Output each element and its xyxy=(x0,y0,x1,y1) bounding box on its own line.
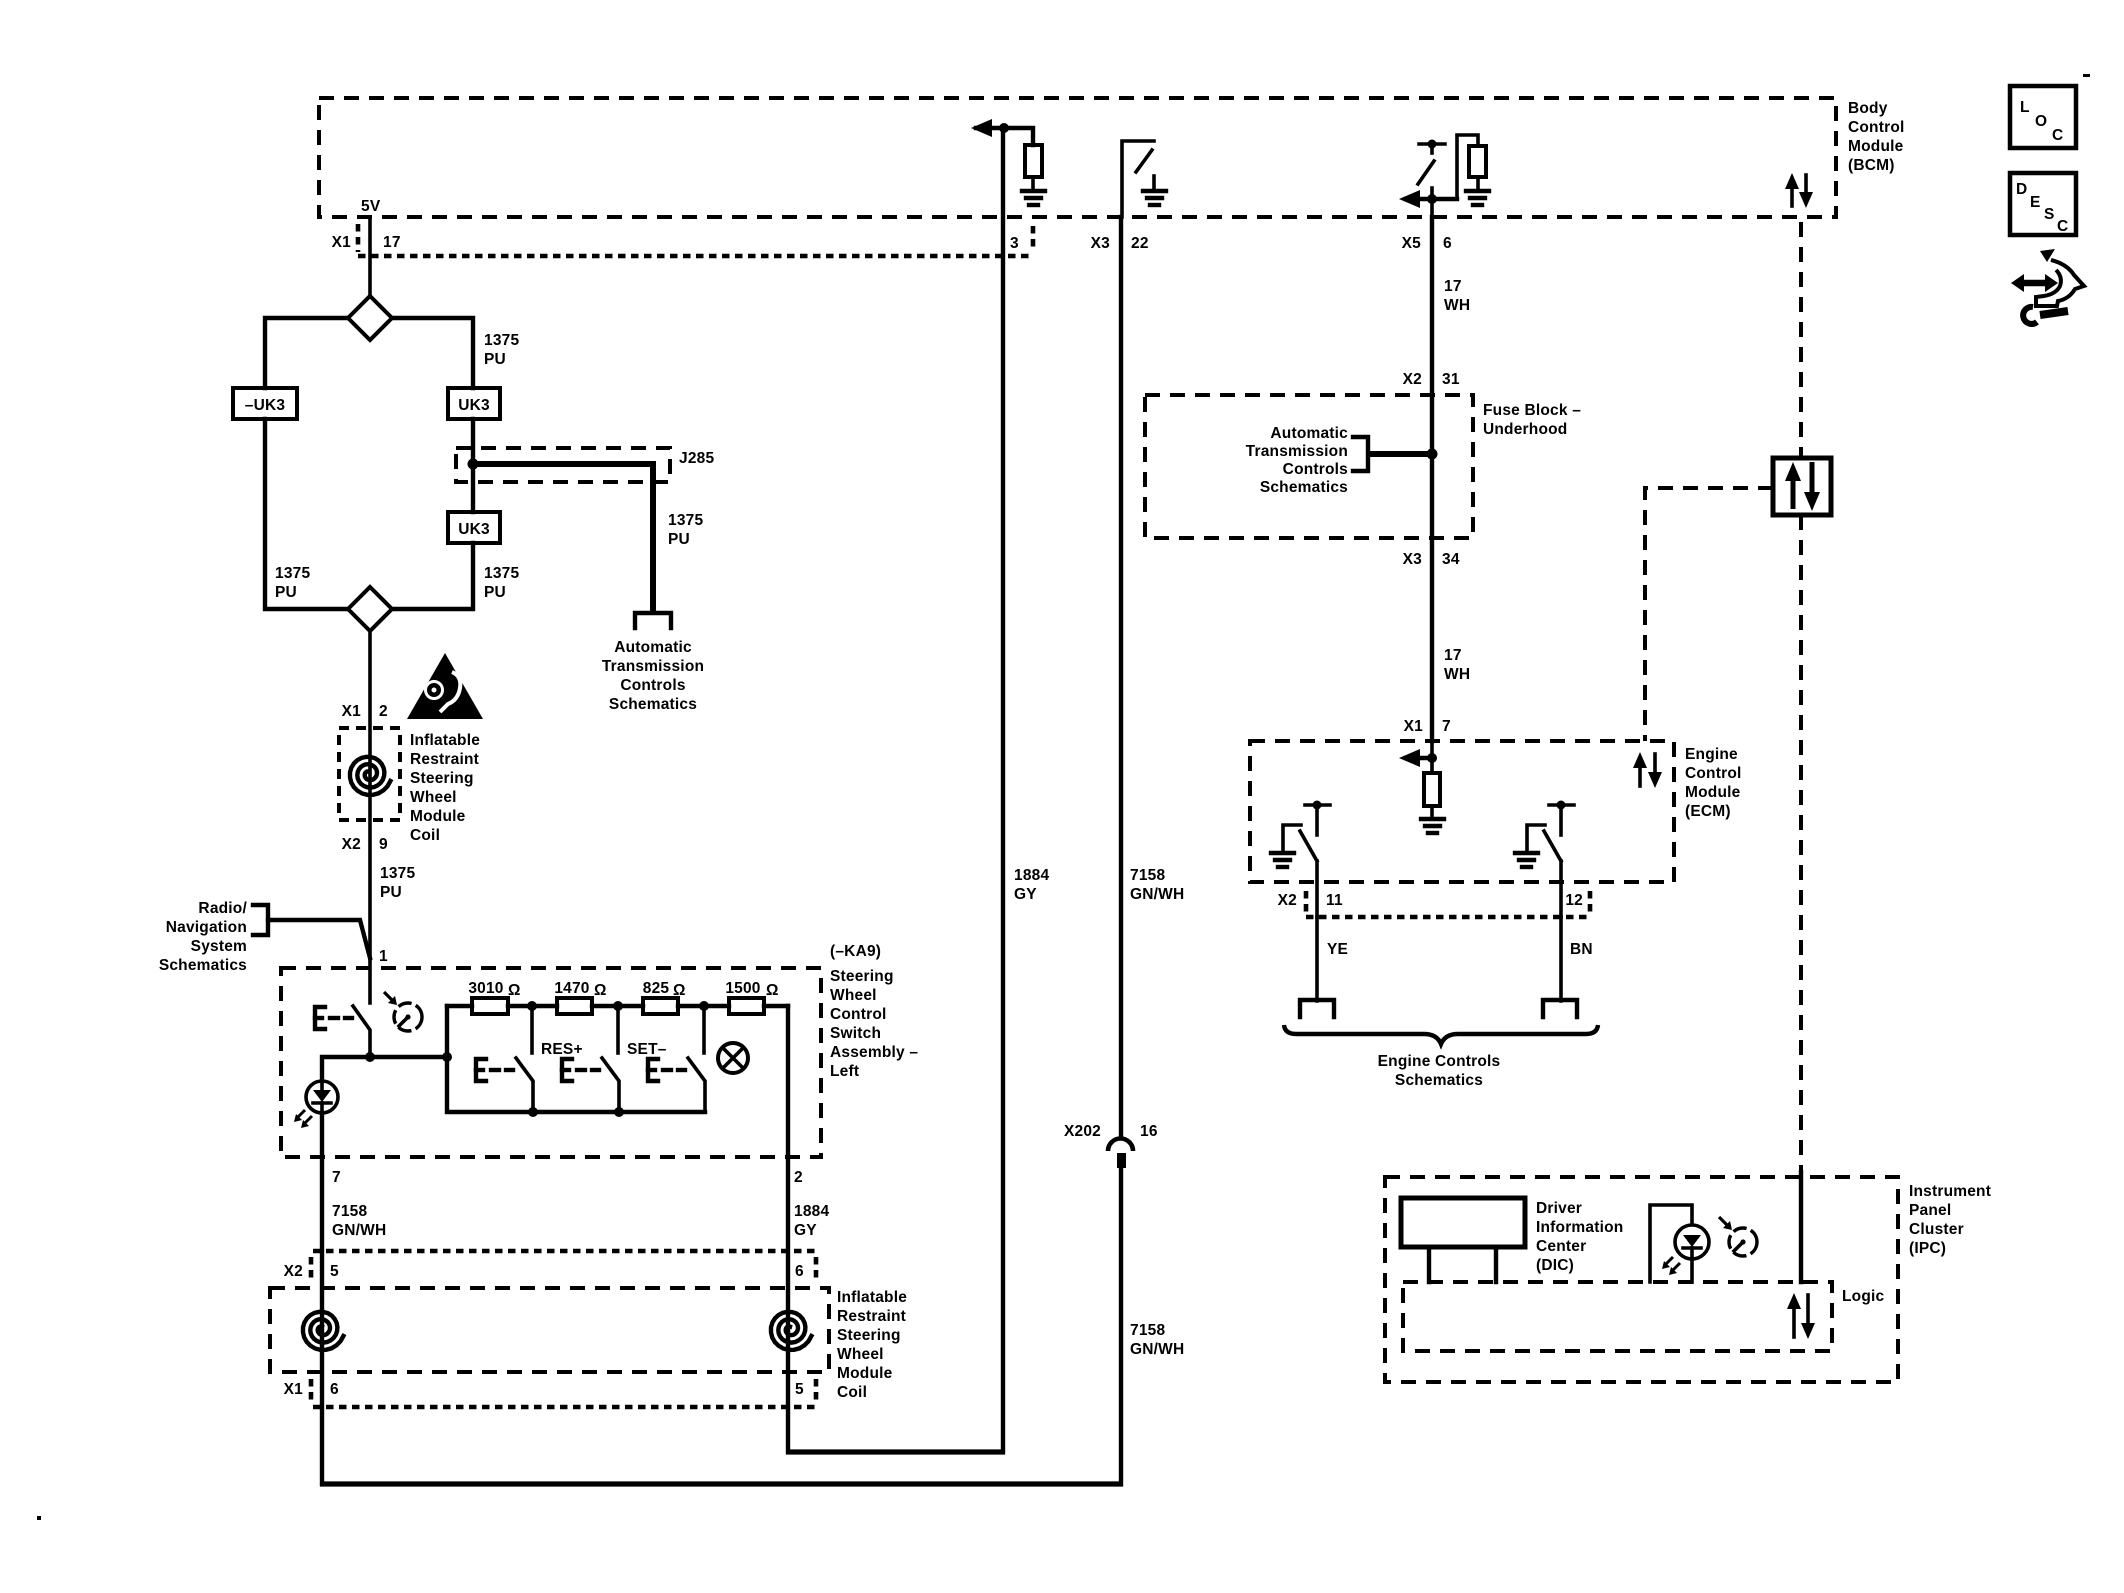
svg-text:C: C xyxy=(2057,218,2068,235)
ground (BCM pin 3) xyxy=(1022,191,1045,205)
svg-text:Module: Module xyxy=(1848,138,1904,155)
svg-text:1375: 1375 xyxy=(668,512,703,529)
resistor (BCM pin 3 pull-up) xyxy=(1025,145,1042,177)
svg-text:17: 17 xyxy=(1444,647,1462,664)
svg-text:7158: 7158 xyxy=(1130,867,1165,884)
svg-text:1375: 1375 xyxy=(484,332,519,349)
wire J285 branch to ATC schematics xyxy=(473,464,653,611)
svg-text:5: 5 xyxy=(330,1263,339,1280)
svg-text:17: 17 xyxy=(383,234,401,251)
svg-text:Module: Module xyxy=(837,1365,893,1382)
label 17 WH (upper) xyxy=(1444,278,1470,314)
wire to ground xyxy=(1476,177,1480,191)
svg-text:Coil: Coil xyxy=(410,827,440,844)
svg-text:GN/WH: GN/WH xyxy=(332,1222,386,1239)
wire from lower splice to coil xyxy=(368,631,372,1003)
svg-text:Automatic: Automatic xyxy=(1270,425,1348,442)
coil L3 spiral (right) xyxy=(771,1312,811,1350)
label: IRSWM coil lower xyxy=(837,1289,907,1401)
svg-text:7158: 7158 xyxy=(1130,1322,1165,1339)
svg-text:X2: X2 xyxy=(342,836,361,853)
svg-text:7: 7 xyxy=(1442,718,1451,735)
connector X1 of BCM (dotted) xyxy=(358,224,1033,256)
off-page bracket (radio/nav) xyxy=(253,905,268,935)
repair icon (arrows + wrench) xyxy=(2011,249,2084,324)
connector X1 of coil assembly (dotted) xyxy=(311,1379,816,1407)
BCM module box (Body Control Module) xyxy=(319,98,1836,217)
svg-text:Steering: Steering xyxy=(830,968,894,985)
svg-text:(DIC): (DIC) xyxy=(1536,1257,1574,1274)
wire BN xyxy=(1559,917,1563,1001)
svg-text:17: 17 xyxy=(1444,278,1462,295)
svg-text:PU: PU xyxy=(484,584,506,601)
svg-text:Schematics: Schematics xyxy=(1260,479,1348,496)
svg-text:Steering: Steering xyxy=(410,770,474,787)
switch S2 (BCM X5-6 driver) xyxy=(1418,140,1445,218)
svg-text:Cluster: Cluster xyxy=(1909,1221,1964,1238)
off-page connector (to Automatic Transmission Controls) xyxy=(635,613,671,628)
svg-text:PU: PU xyxy=(484,351,506,368)
coil L2 spiral (left) xyxy=(303,1312,343,1350)
svg-text:(IPC): (IPC) xyxy=(1909,1240,1946,1257)
LED D1 (illumination) xyxy=(294,1081,338,1128)
serial data link dashed to IPC xyxy=(1799,515,1803,1170)
svg-text:Ω: Ω xyxy=(673,982,686,999)
serial data link dashed BCM to data box xyxy=(1799,222,1803,458)
svg-text:UK3: UK3 xyxy=(458,397,490,414)
resistor R4 1500 xyxy=(729,998,764,1014)
svg-text:GY: GY xyxy=(1014,886,1037,903)
LED D2 (IPC telltale) xyxy=(1650,1205,1709,1282)
svg-text:Switch: Switch xyxy=(830,1025,881,1042)
label 1375 PU (left) xyxy=(275,565,310,601)
wire R4 to right rail xyxy=(764,1004,788,1008)
svg-text:Schematics: Schematics xyxy=(609,696,697,713)
fuse block box (Fuse Block - Underhood) xyxy=(1145,395,1473,538)
lamp (cruise telltale, crossed circle) xyxy=(718,1043,748,1073)
svg-text:(–KA9): (–KA9) xyxy=(830,943,881,960)
wire: BCM pin 3 internal pull-up rail xyxy=(976,128,1033,145)
svg-text:Schematics: Schematics xyxy=(1395,1072,1483,1089)
svg-text:X2: X2 xyxy=(284,1263,303,1280)
svg-text:9: 9 xyxy=(379,836,388,853)
LOC legend box xyxy=(2010,86,2076,148)
svg-text:Navigation: Navigation xyxy=(166,919,247,936)
DIC display block xyxy=(1401,1198,1525,1247)
pin labels X2 11 12 xyxy=(1278,892,1583,909)
svg-text:J285: J285 xyxy=(679,450,714,467)
nodes on bottom rail xyxy=(528,1107,538,1117)
svg-text:Panel: Panel xyxy=(1909,1202,1951,1219)
label: DIC xyxy=(1536,1200,1623,1274)
svg-text:1884: 1884 xyxy=(794,1203,829,1220)
svg-text:C: C xyxy=(2052,127,2063,144)
label: ATC schematics xyxy=(602,639,704,713)
off-page bracket (ATC) xyxy=(1353,437,1368,471)
svg-text:1375: 1375 xyxy=(380,865,415,882)
wire right branch to lower splice xyxy=(392,543,473,609)
pin labels X2 31 xyxy=(1403,371,1460,388)
resistor ladder left rail xyxy=(447,1006,705,1112)
ground (ECM pull-up) xyxy=(1421,819,1444,833)
coil L1 box (IRSWM coil upper) xyxy=(339,728,400,820)
ECM serial data arrows xyxy=(1633,752,1662,788)
svg-text:WH: WH xyxy=(1444,666,1470,683)
connector X2 of ECM (dotted) xyxy=(1306,891,1590,917)
label 7158 GN/WH (left) xyxy=(332,1203,386,1239)
wire right branch down through J285 xyxy=(471,419,475,512)
svg-text:Ω: Ω xyxy=(508,982,521,999)
switch assembly box (SWC switch assembly left) xyxy=(281,968,821,1157)
pin labels coil top (X1 2) xyxy=(342,703,388,720)
pin labels BCM bottom xyxy=(332,234,1452,252)
svg-text:1470: 1470 xyxy=(554,980,589,997)
svg-text:X202: X202 xyxy=(1064,1123,1101,1140)
IPC serial arrows xyxy=(1787,1293,1815,1339)
svg-text:GN/WH: GN/WH xyxy=(1130,886,1184,903)
svg-text:7158: 7158 xyxy=(332,1203,367,1220)
svg-text:Control: Control xyxy=(830,1006,887,1023)
svg-text:O: O xyxy=(2035,113,2047,130)
ground (BCM X5-6) xyxy=(1466,191,1489,205)
node: fuse block tap xyxy=(1427,449,1438,460)
svg-text:34: 34 xyxy=(1442,551,1460,568)
svg-text:Restraint: Restraint xyxy=(410,751,479,768)
svg-text:Ω: Ω xyxy=(766,982,779,999)
svg-text:Transmission: Transmission xyxy=(1246,443,1348,460)
svg-text:D: D xyxy=(2016,181,2027,198)
DESC legend box xyxy=(2010,173,2076,235)
pin labels X1 7 xyxy=(1404,718,1451,735)
svg-text:825: 825 xyxy=(643,980,670,997)
label 1375 PU (upper right) xyxy=(484,332,519,368)
resistor R2 1470 xyxy=(557,998,592,1014)
svg-text:1375: 1375 xyxy=(275,565,310,582)
wire: 7158 GN/WH from LED through coil to X202 riser xyxy=(320,1113,324,1484)
wire: 7158 GN/WH upper segment BCM X3-22 to X202 xyxy=(1119,217,1123,1138)
svg-text:3010: 3010 xyxy=(468,980,503,997)
node: junction at pin 3 riser xyxy=(999,123,1009,133)
svg-text:31: 31 xyxy=(1442,371,1460,388)
svg-text:Control: Control xyxy=(1685,765,1742,782)
svg-text:Engine Controls: Engine Controls xyxy=(1378,1053,1501,1070)
svg-text:X1: X1 xyxy=(284,1381,304,1398)
svg-text:7: 7 xyxy=(332,1169,341,1186)
wire to resistor xyxy=(1457,135,1478,199)
label 1375 PU (below coil) xyxy=(380,865,415,901)
svg-text:E: E xyxy=(2030,194,2041,211)
svg-text:Transmission: Transmission xyxy=(602,658,704,675)
svg-text:1500: 1500 xyxy=(725,980,760,997)
svg-text:Wheel: Wheel xyxy=(837,1346,884,1363)
switch S3 (cruise on/off) xyxy=(353,1006,370,1057)
logic box xyxy=(1403,1282,1832,1351)
resistor (ECM pull-up) xyxy=(1430,758,1434,773)
svg-text:Restraint: Restraint xyxy=(837,1308,906,1325)
SIR warning triangle xyxy=(407,653,483,719)
node ladder left xyxy=(442,1052,452,1062)
label: fuse block xyxy=(1483,402,1581,438)
arrow (ECM X1-7 input) xyxy=(1406,756,1432,760)
svg-text:5V: 5V xyxy=(361,198,381,215)
svg-text:UK3: UK3 xyxy=(458,521,490,538)
arrow (BCM X5-6 output) xyxy=(1406,197,1457,201)
svg-text:Left: Left xyxy=(830,1063,859,1080)
node between R2 R3 xyxy=(592,1004,643,1008)
connector X2 of coil assembly (dotted) xyxy=(311,1251,816,1283)
svg-text:SET–: SET– xyxy=(627,1041,667,1058)
tick mark bottom left xyxy=(37,1516,41,1520)
node between R3 R4 xyxy=(678,1004,729,1008)
svg-text:12: 12 xyxy=(1565,892,1583,909)
wire left branch down xyxy=(265,419,348,609)
svg-text:–UK3: –UK3 xyxy=(245,397,286,414)
svg-text:(ECM): (ECM) xyxy=(1685,803,1731,820)
svg-text:Logic: Logic xyxy=(1842,1288,1885,1305)
svg-text:Radio/: Radio/ xyxy=(198,900,247,917)
splice diamond (lower) xyxy=(348,587,392,631)
wire right branch to UK3 xyxy=(392,318,473,388)
resistor R1 3010 xyxy=(447,1004,472,1008)
label 17 WH (lower) xyxy=(1444,647,1470,683)
svg-text:Assembly –: Assembly – xyxy=(830,1044,918,1061)
label: IRSWM coil upper xyxy=(410,732,480,844)
svg-text:Wheel: Wheel xyxy=(830,987,877,1004)
svg-text:2: 2 xyxy=(379,703,388,720)
switch S7 (ECM driver, pin 11) xyxy=(1283,801,1330,918)
svg-text:Module: Module xyxy=(410,808,466,825)
svg-text:11: 11 xyxy=(1326,892,1343,909)
IPC module box (Instrument Panel Cluster) xyxy=(1385,1177,1898,1382)
svg-text:X1: X1 xyxy=(342,703,362,720)
serial data link dashed to ECM xyxy=(1645,488,1773,741)
svg-text:(BCM): (BCM) xyxy=(1848,157,1895,174)
label: Radio/Navigation schematics xyxy=(159,900,248,974)
label 1884 GY (riser) xyxy=(1014,867,1049,903)
label: IPC xyxy=(1909,1183,1991,1257)
terminal (BN) xyxy=(1543,1000,1577,1017)
wire YE xyxy=(1315,917,1319,1001)
svg-text:6: 6 xyxy=(330,1381,339,1398)
node: on/off switch junction xyxy=(365,1052,375,1062)
node: J285 splice xyxy=(468,459,479,470)
switch S1 (BCM X3-22 input to ground) xyxy=(1122,141,1154,217)
pin labels X2 5 / 6 xyxy=(284,1263,804,1280)
ground (ECM driver right) xyxy=(1515,853,1538,867)
svg-text:22: 22 xyxy=(1131,235,1149,252)
svg-text:Coil: Coil xyxy=(837,1384,867,1401)
svg-text:YE: YE xyxy=(1327,941,1348,958)
pin labels X1 6 / 5 xyxy=(284,1381,804,1398)
fuse UK3 (upper) xyxy=(448,388,500,419)
wire to ground xyxy=(1031,177,1035,191)
splice diamond (upper) xyxy=(348,296,392,340)
wire left branch to -UK3 xyxy=(265,318,348,388)
svg-text:2: 2 xyxy=(794,1169,803,1186)
svg-text:6: 6 xyxy=(1443,235,1452,252)
svg-text:1: 1 xyxy=(379,948,388,965)
svg-text:Module: Module xyxy=(1685,784,1741,801)
svg-text:5: 5 xyxy=(795,1381,804,1398)
svg-text:X3: X3 xyxy=(1403,551,1423,568)
switch S4 (tap 1) xyxy=(530,1006,534,1053)
serial data box arrows xyxy=(1785,462,1820,511)
svg-text:X2: X2 xyxy=(1278,892,1297,909)
resistor (BCM X5-6 pull-up) xyxy=(1469,146,1486,177)
wire to ground xyxy=(1430,806,1434,819)
labels X202 16 xyxy=(1064,1123,1158,1140)
terminal (YE) xyxy=(1300,1000,1334,1017)
svg-text:Ω: Ω xyxy=(594,982,607,999)
DIC legs xyxy=(1429,1247,1496,1282)
svg-text:Body: Body xyxy=(1848,100,1888,117)
svg-text:Center: Center xyxy=(1536,1238,1586,1255)
tick mark top right xyxy=(2083,74,2090,77)
label: ATC schematics (fuse block) xyxy=(1246,425,1348,496)
switch S8 (ECM driver, pin 12) xyxy=(1527,801,1574,918)
brace (engine controls) xyxy=(1284,1025,1598,1044)
svg-text:Inflatable: Inflatable xyxy=(837,1289,907,1306)
svg-text:WH: WH xyxy=(1444,297,1470,314)
svg-text:X5: X5 xyxy=(1402,235,1422,252)
splice J285 box xyxy=(456,448,670,482)
svg-text:X3: X3 xyxy=(1091,235,1111,252)
svg-text:Underhood: Underhood xyxy=(1483,421,1567,438)
actuator E (on/off) xyxy=(315,1007,352,1029)
svg-text:Driver: Driver xyxy=(1536,1200,1582,1217)
svg-text:RES+: RES+ xyxy=(541,1041,583,1058)
svg-text:1375: 1375 xyxy=(484,565,519,582)
svg-text:1884: 1884 xyxy=(1014,867,1049,884)
svg-text:Steering: Steering xyxy=(837,1327,901,1344)
svg-text:6: 6 xyxy=(795,1263,804,1280)
svg-text:16: 16 xyxy=(1140,1123,1158,1140)
serial data box xyxy=(1773,458,1831,515)
svg-text:Controls: Controls xyxy=(1283,461,1348,478)
svg-text:PU: PU xyxy=(380,884,402,901)
node: X5-6 junction xyxy=(1427,194,1437,204)
svg-text:Controls: Controls xyxy=(620,677,685,694)
svg-text:GY: GY xyxy=(794,1222,817,1239)
label 1375 PU (J285 branch) xyxy=(668,512,703,548)
svg-text:Control: Control xyxy=(1848,119,1905,136)
wire junction to ladder xyxy=(370,1055,447,1059)
svg-text:Inflatable: Inflatable xyxy=(410,732,480,749)
svg-text:X1: X1 xyxy=(332,234,352,251)
label 7158 GN/WH (below X202) xyxy=(1130,1322,1184,1358)
wire: 1884 GY right rail down and up to BCM pin 3 xyxy=(786,1006,790,1452)
fuse -UK3 xyxy=(233,388,297,419)
label: ECM xyxy=(1685,746,1742,820)
wire radio/nav to switch feed xyxy=(268,920,370,958)
node between R1 R2 xyxy=(508,1004,557,1008)
svg-text:X1: X1 xyxy=(1404,718,1424,735)
label 7158 GN/WH (riser) xyxy=(1130,867,1184,903)
label: engine controls schematics xyxy=(1378,1053,1501,1089)
ground (ECM driver left) xyxy=(1271,853,1294,867)
wire: 17 WH from BCM X5-6 down to ECM X1-7 xyxy=(1430,217,1434,741)
coil assembly box (IRSWM coil lower) xyxy=(270,1288,829,1372)
svg-text:S: S xyxy=(2044,206,2055,223)
coil L1 spiral xyxy=(350,757,390,795)
pin labels coil bottom (X2 9) xyxy=(342,836,388,853)
wire serial data inside IPC xyxy=(1799,1172,1803,1282)
node: ECM pin 7 junction xyxy=(1427,753,1437,763)
label 1375 PU (mid) xyxy=(484,565,519,601)
wire ATC tap xyxy=(1369,451,1432,457)
BCM label xyxy=(1848,100,1905,174)
ECM module box (Engine Control Module) xyxy=(1250,741,1674,882)
svg-text:L: L xyxy=(2020,99,2030,116)
svg-text:Wheel: Wheel xyxy=(410,789,457,806)
svg-text:Engine: Engine xyxy=(1685,746,1738,763)
svg-text:PU: PU xyxy=(275,584,297,601)
arrow (output to BCM logic, pin 3) xyxy=(971,119,992,137)
svg-text:Automatic: Automatic xyxy=(614,639,692,656)
label 1884 GY (right) xyxy=(794,1203,829,1239)
svg-text:3: 3 xyxy=(1010,235,1019,252)
cruise icon (IPC speedometer) xyxy=(1719,1217,1757,1256)
svg-text:GN/WH: GN/WH xyxy=(1130,1341,1184,1358)
svg-text:X2: X2 xyxy=(1403,371,1422,388)
wire: 5V feed from BCM X1-17 xyxy=(368,217,372,298)
cruise control icon (speedometer) xyxy=(384,992,422,1031)
fuse UK3 (lower) xyxy=(448,512,500,543)
pin labels X3 34 xyxy=(1403,551,1460,568)
svg-text:PU: PU xyxy=(668,531,690,548)
wire ECM pin 7 xyxy=(1430,741,1434,758)
inline connector X202 pin 16 xyxy=(1108,1138,1133,1168)
svg-text:BN: BN xyxy=(1570,941,1593,958)
resistor R3 825 xyxy=(643,998,678,1014)
wire junction to LED xyxy=(322,1057,370,1081)
label: switch assembly xyxy=(830,968,918,1080)
BCM serial data arrows xyxy=(1785,173,1813,208)
svg-text:Information: Information xyxy=(1536,1219,1623,1236)
ground (BCM X3-22) xyxy=(1143,191,1166,205)
svg-text:Instrument: Instrument xyxy=(1909,1183,1991,1200)
svg-text:Fuse Block –: Fuse Block – xyxy=(1483,402,1581,419)
svg-text:Schematics: Schematics xyxy=(159,957,247,974)
svg-text:System: System xyxy=(191,938,247,955)
